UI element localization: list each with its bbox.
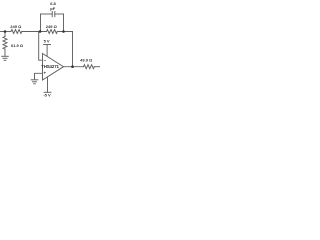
svg-text:49.9 Ω: 49.9 Ω	[80, 57, 93, 62]
svg-text:pF: pF	[50, 6, 55, 11]
wire input row left	[1, 31, 12, 33]
resistor R1 249 ohm input	[11, 30, 22, 34]
svg-text:61.9 Ω: 61.9 Ω	[11, 43, 24, 48]
wire output	[64, 66, 84, 68]
svg-text:249 Ω: 249 Ω	[46, 24, 58, 29]
svg-text:+: +	[43, 71, 46, 76]
wire output to edge	[94, 66, 100, 68]
wire noninverting input	[35, 73, 43, 79]
ground GND2 at noninverting input	[31, 80, 38, 84]
node feedback right junction	[62, 30, 65, 33]
wire feedback box left vertical	[40, 14, 42, 32]
power 5V rail bar	[44, 45, 51, 57]
ground GND1 under R3	[2, 56, 9, 60]
svg-text:-5 V: -5 V	[43, 93, 51, 98]
node input junction	[4, 30, 7, 33]
svg-text:−: −	[43, 58, 46, 63]
node output junction	[71, 65, 74, 68]
wire feedback box right vertical	[63, 14, 65, 32]
svg-text:5 V: 5 V	[44, 39, 50, 44]
svg-text:THS4271: THS4271	[41, 64, 59, 69]
wire between R1 and node inverting	[22, 31, 47, 33]
resistor R3 61.9 ohm	[3, 32, 7, 57]
resistor R2 249 ohm feedback	[47, 30, 58, 34]
wire feedback vertical right	[72, 32, 74, 67]
resistor R4 49.9 ohm output	[84, 65, 95, 69]
svg-text:249 Ω: 249 Ω	[10, 24, 22, 29]
capacitor C1 6.8 pF	[41, 12, 64, 17]
wire feedback row to corner	[57, 31, 72, 33]
node inverting junction	[39, 30, 42, 33]
power -5V rail bar	[44, 77, 51, 92]
wire inverting input vertical	[39, 32, 43, 61]
op-amp U1 THS4271 triangle	[43, 54, 64, 81]
